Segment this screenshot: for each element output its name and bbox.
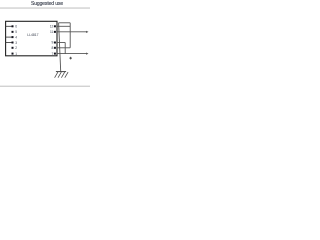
pin 4 pad: [12, 36, 14, 38]
svg-text:3: 3: [15, 41, 17, 45]
arrowhead output pin11: [86, 31, 88, 33]
arrowhead output pin7: [86, 52, 88, 54]
pin 2 pad: [12, 47, 14, 49]
wire pin9 horizontal: [57, 42, 65, 44]
ground hatch 4: [65, 72, 68, 78]
pin 11 pad: [54, 31, 56, 33]
page background: [0, 0, 90, 90]
wire pin11 output: [57, 31, 87, 33]
pin 1 pad: [12, 53, 14, 55]
wire pin12 to node B2: [57, 25, 70, 27]
pin 12 pad: [54, 25, 56, 27]
svg-text:9: 9: [52, 41, 54, 45]
footer rule: [0, 86, 90, 87]
svg-text:11: 11: [50, 30, 54, 34]
pin 3 pad: [12, 42, 14, 44]
svg-text:7: 7: [52, 52, 54, 56]
wire vertical node B pin9 down: [64, 43, 66, 54]
pin 7 pad: [54, 53, 56, 55]
plus polarity label: [69, 57, 72, 59]
svg-text:2: 2: [15, 46, 17, 50]
ground bar: [56, 71, 66, 73]
svg-text:Suggested use: Suggested use: [31, 1, 63, 7]
svg-text:1: 1: [15, 52, 17, 56]
svg-text:4: 4: [15, 35, 17, 39]
ground hatch 1: [55, 72, 58, 78]
wire vertical node A to ground: [59, 23, 61, 72]
svg-text:8: 8: [52, 46, 54, 50]
svg-text:12: 12: [50, 25, 54, 29]
pin 9 pad: [54, 42, 56, 44]
header rule: [0, 7, 90, 8]
ground hatch 2: [58, 72, 61, 78]
ground hatch 3: [61, 72, 64, 78]
svg-text:6: 6: [15, 25, 17, 29]
pin 5 pad: [12, 31, 14, 33]
pin 8 pad: [54, 47, 56, 49]
wire vertical node B2: [69, 23, 71, 48]
wire pin8 to node B2: [57, 47, 70, 49]
svg-text:5: 5: [15, 30, 17, 34]
wire pin7 output: [57, 53, 87, 55]
pin 3 stub: [6, 42, 12, 44]
svg-text:LL4817: LL4817: [27, 33, 38, 37]
wire top link node A to node B2: [59, 22, 71, 24]
IC body U1 LL4817: [6, 21, 57, 56]
pin 6 stub: [6, 25, 12, 27]
pin 4 stub: [6, 36, 12, 38]
pin 6 pad: [12, 25, 14, 27]
